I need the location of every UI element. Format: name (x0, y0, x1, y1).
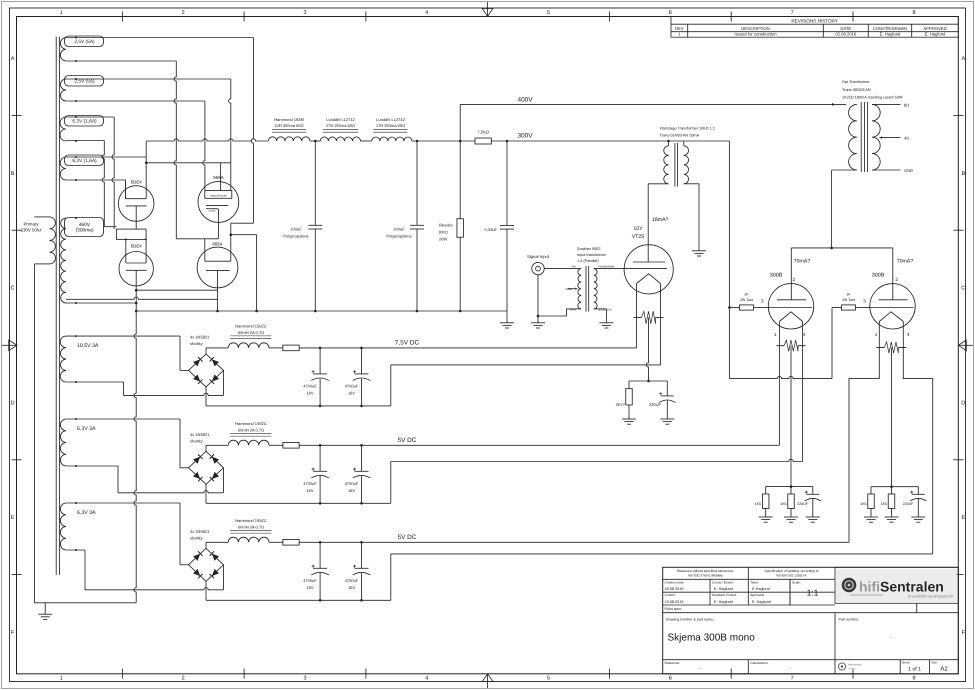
svg-text:C: C (11, 286, 15, 292)
wire input shield return (538, 275, 573, 316)
svg-text:Scale:: Scale: (792, 580, 801, 584)
bridge rectifier 4x 1N5821 PSU1 7.5V (189, 334, 224, 387)
svg-text:200uF: 200uF (393, 226, 405, 231)
svg-text:2K77: 2K77 (616, 402, 626, 407)
winding W4 6.3V 1.6A (60, 155, 103, 181)
svg-text:4: 4 (425, 10, 428, 16)
winding W6 10.5V 3A (60, 335, 99, 383)
resistor 1K 2W Tant grid V7 (832, 293, 870, 310)
ground bus (136, 310, 507, 312)
svg-text:Hammond 159ZC: Hammond 159ZC (235, 421, 267, 426)
svg-text:Standard Control:: Standard Control: (712, 593, 737, 597)
svg-text:A2: A2 (940, 666, 948, 673)
svg-text:D: D (961, 400, 965, 406)
wire V6 cathode wiper (790, 346, 792, 487)
title block (663, 567, 959, 674)
svg-text:1: 1 (60, 10, 63, 16)
svg-text:Part number:: Part number: (839, 618, 860, 622)
svg-text:17H 250ma 65Ω: 17H 250ma 65Ω (376, 123, 405, 128)
svg-text:2: 2 (793, 277, 796, 282)
wire 460V CT return (66, 297, 218, 299)
wire 460V bottom lead (66, 302, 136, 304)
hum pot V6 (776, 345, 784, 347)
svg-text:4700uF: 4700uF (303, 578, 317, 583)
svg-text:GND: GND (904, 168, 913, 173)
svg-text:Trans-305/03 AN: Trans-305/03 AN (842, 88, 871, 92)
svg-text:Issued for construction: Issued for construction (734, 32, 777, 37)
svg-text:16V: 16V (348, 585, 355, 590)
svg-text:(300ma): (300ma) (76, 228, 94, 234)
input transformer T3 Sowther 9062 (566, 247, 615, 312)
wire W4 bottom to V1 heater (66, 179, 126, 181)
wire 866A V4 plate to B+ node (231, 222, 254, 224)
ground (599, 322, 613, 324)
connector J1 signal input (527, 254, 550, 275)
choke L2 Lundahl LL2742 (320, 117, 360, 141)
svg-text:4: 4 (425, 676, 428, 682)
wire secondary to 10Y grid (594, 268, 624, 270)
svg-text:E: E (961, 515, 965, 521)
svg-text:shottky: shottky (190, 535, 203, 540)
wire V7 filament legs (849, 322, 879, 543)
choke L1 Hammond 193M (268, 117, 310, 141)
svg-text:1K25Ω 180mA standing curent 50: 1K25Ω 180mA standing curent 50W (842, 95, 903, 99)
svg-text:MIDB: MIDB (566, 288, 573, 291)
bridge rectifier 4x 1N5821 PSU3 5V b (189, 529, 224, 582)
resistor 2K77 (616, 389, 633, 419)
svg-text:4x 1N5821: 4x 1N5821 (190, 334, 210, 339)
svg-text:Measures without specified tol: Measures without specified tolerances: (677, 569, 734, 573)
wire interstage primary bottom to 10Y plate (648, 183, 668, 185)
svg-text:A: A (11, 56, 15, 62)
wire cathode network bar (629, 380, 667, 382)
svg-text:PRI: PRI (572, 266, 577, 269)
wire input to transformer (544, 268, 577, 270)
svg-text:Specification of welding, acco: Specification of welding, according to (764, 569, 818, 573)
wire junction row (146, 162, 231, 164)
svg-text:70mA?: 70mA? (897, 259, 914, 265)
svg-text:catode: catode (208, 210, 216, 213)
capacitor 220uF 10Y cathode (649, 392, 675, 419)
svg-text:10H 300ma 65Ω: 10H 300ma 65Ω (274, 123, 303, 128)
wire V7 grid drop (831, 308, 833, 379)
wire 300V to grid bus drop (728, 141, 730, 379)
ground (885, 516, 899, 518)
svg-text:16V: 16V (306, 488, 313, 493)
plate bus wire (791, 247, 893, 249)
choke PSU1 7.5V Hammond 159ZC (206, 323, 271, 354)
wire W2 bottom (66, 100, 205, 102)
svg-text:Creation date:: Creation date: (665, 580, 685, 584)
svg-text:APPROVED: APPROVED (923, 26, 946, 31)
wire W3 bottom heater feed (66, 140, 104, 142)
svg-text:300B: 300B (872, 272, 885, 278)
V7 cathode network (860, 485, 926, 517)
svg-text:8: 8 (912, 676, 915, 682)
revisions history table (671, 17, 958, 38)
svg-text:10,5V 3A: 10,5V 3A (77, 343, 99, 349)
svg-text:60mH 2A 0,7Ω: 60mH 2A 0,7Ω (238, 330, 264, 335)
svg-text:2: 2 (895, 277, 898, 282)
wire OPT primary drop (831, 170, 833, 248)
svg-text:hifiSentralen: hifiSentralen (859, 579, 944, 595)
svg-text:6,3V (1,6A): 6,3V (1,6A) (72, 158, 97, 164)
ground (38, 613, 52, 615)
svg-text:E.Haglund: E.Haglund (752, 587, 770, 591)
svg-text:E. Haglund: E. Haglund (714, 587, 733, 591)
wire OPT tap 4 ohm (880, 137, 901, 139)
svg-text:8: 8 (912, 10, 915, 16)
svg-text:1: 1 (774, 332, 777, 337)
svg-text:2: 2 (182, 10, 185, 16)
wire 10Y cathode wiper (646, 318, 648, 382)
wire AC feed bottom PSU1 7.5V (66, 381, 124, 383)
svg-text:NS-EN ISO 13920-A: NS-EN ISO 13920-A (776, 574, 807, 578)
svg-text:Opt Transformer: Opt Transformer (842, 80, 870, 84)
ground (784, 516, 798, 518)
capacitor 200uF polypropylene (386, 141, 424, 311)
svg-text:Paint spec:: Paint spec: (665, 607, 683, 611)
DC return PSU3 5V b (205, 581, 207, 600)
winding W3 6.3V 1.6A (60, 116, 104, 143)
primary winding 230V 50Hz (34, 217, 55, 603)
capacitor 4700uF a PSU1 7.5V (303, 348, 329, 406)
svg-text:Sheet:: Sheet: (902, 661, 911, 665)
svg-text:Hammond 159ZC: Hammond 159ZC (235, 518, 267, 523)
svg-text:2,5V (5A): 2,5V (5A) (74, 79, 95, 85)
winding W7 6.3V 3A (60, 418, 96, 467)
svg-text:866A: 866A (213, 175, 223, 180)
svg-text:2W Tant: 2W Tant (740, 298, 753, 302)
wire 866A plate feeds (176, 238, 218, 240)
svg-text:230V 50hz: 230V 50hz (21, 228, 42, 233)
wire rail segment (310, 140, 320, 142)
svg-text:60mH 2A 0,7Ω: 60mH 2A 0,7Ω (238, 524, 264, 529)
svg-text:1K5: 1K5 (780, 502, 786, 506)
svg-text:Size:: Size: (931, 661, 938, 665)
svg-text:Polypropylene: Polypropylene (386, 233, 412, 238)
svg-text:B: B (961, 171, 965, 177)
grid bias bus (729, 376, 832, 378)
400V rail (460, 103, 846, 105)
wire 10Y filament legs (636, 284, 638, 348)
svg-text:D: D (11, 400, 15, 406)
svg-text:1K5: 1K5 (881, 502, 887, 506)
wire W2 top (66, 78, 231, 80)
svg-text:7,5V DC: 7,5V DC (395, 340, 420, 347)
cathode trunk wire (134, 270, 136, 603)
svg-text:19.08.2016: 19.08.2016 (665, 600, 684, 604)
hum pot V7 (876, 347, 884, 349)
label Primary 230V 50hz (21, 222, 42, 233)
svg-text:shottky: shottky (190, 341, 203, 346)
svg-text:E: E (11, 515, 15, 521)
svg-text:4700uF: 4700uF (345, 383, 359, 388)
svg-text:DESCRIPTION: DESCRIPTION (741, 26, 770, 31)
svg-text:Interstage Transformer 10KΩ 1:: Interstage Transformer 10KΩ 1:1 (660, 127, 715, 131)
svg-text:1K: 1K (744, 293, 749, 297)
svg-text:4700uF: 4700uF (303, 383, 317, 388)
rectifier tube V4 866A (197, 242, 238, 313)
svg-text:PAR/BROWN: PAR/BROWN (599, 266, 615, 269)
wire rail segment (361, 140, 372, 142)
svg-text:6DE4: 6DE4 (131, 180, 143, 185)
svg-text:1 of 1: 1 of 1 (908, 666, 921, 672)
svg-text:1K: 1K (846, 293, 851, 297)
svg-text:1: 1 (60, 676, 63, 682)
svg-text:Heater/Catode: Heater/Catode (210, 195, 227, 198)
svg-text:6,3V 3A: 6,3V 3A (77, 426, 96, 432)
DC return PSU2 5V a (205, 484, 207, 503)
svg-text:VT25: VT25 (632, 234, 645, 240)
resistor filter PSU3 5V b (269, 541, 283, 543)
svg-text:Calculations:: Calculations: (750, 661, 768, 665)
wire 300V rail to interstage (491, 140, 729, 142)
hum pot 10Y (634, 317, 642, 319)
wire rail to resistor (412, 140, 475, 142)
resistor 7.5K (475, 130, 491, 144)
svg-text:866A: 866A (212, 242, 222, 247)
svg-text:et audiofilt samlingspunkt: et audiofilt samlingspunkt (908, 594, 954, 599)
svg-text:punkt no: punkt no (848, 667, 857, 670)
hifiSentralen logo (842, 578, 954, 599)
output transformer T4 (842, 80, 903, 172)
choke L3 Lundahl LL2742 (372, 117, 412, 141)
svg-text:10KΩ: 10KΩ (438, 229, 448, 234)
wire AC feed top PSU2 5V a (66, 418, 180, 420)
svg-text:Trans-014/03 AN 20mA: Trans-014/03 AN 20mA (660, 133, 700, 137)
svg-text:5: 5 (547, 10, 550, 16)
ground (759, 516, 773, 518)
svg-text:16V: 16V (348, 488, 355, 493)
svg-text:E. Haglund: E. Haglund (714, 600, 733, 604)
svg-text:100uF: 100uF (290, 226, 302, 231)
svg-text:Bleeder: Bleeder (439, 222, 453, 227)
svg-text:3: 3 (303, 10, 306, 16)
power tube V7 300B (863, 248, 915, 337)
svg-text:Signal Input: Signal Input (527, 254, 550, 259)
rectifier tube V1 6DE4 (118, 180, 154, 230)
svg-text:1:4 (Parallel): 1:4 (Parallel) (577, 259, 599, 263)
interstage transformer T2 (660, 127, 715, 187)
ground (692, 250, 706, 252)
wire AC feed bottom PSU3 5V b (66, 549, 85, 551)
wire AC feed top PSU1 7.5V (66, 335, 180, 337)
svg-text:5: 5 (547, 676, 550, 682)
heater junction box (116, 229, 146, 239)
power transformer T1 core (56, 37, 59, 576)
svg-text:Drawing number & part name :: Drawing number & part name : (666, 618, 715, 622)
svg-text:4x 1N5821: 4x 1N5821 (190, 432, 210, 437)
capacitor 4700uF b PSU3 5V b (345, 542, 371, 600)
svg-text:0,33uF: 0,33uF (485, 227, 498, 232)
svg-text:REVISIONS HISTORY: REVISIONS HISTORY (791, 18, 838, 23)
capacitor 4700uF a PSU2 5V a (303, 445, 329, 503)
transformer ground bus (34, 602, 136, 604)
ground (864, 516, 878, 518)
svg-text:17H 250ma 65Ω: 17H 250ma 65Ω (326, 123, 355, 128)
svg-text:Hammond 159ZC: Hammond 159ZC (235, 323, 267, 328)
svg-text:NS-ISO 2768-1 Middels: NS-ISO 2768-1 Middels (688, 574, 723, 578)
ground (911, 516, 925, 518)
svg-text:C: C (961, 286, 965, 292)
svg-text:Lundahl LL2742: Lundahl LL2742 (326, 117, 355, 122)
svg-text:DATE: DATE (840, 26, 851, 31)
svg-text:16V: 16V (306, 585, 313, 590)
winding W8 6.3V 3A (60, 502, 96, 551)
wire secondary bottom to ground (594, 308, 607, 310)
wire V6 filament legs (778, 322, 780, 446)
small logo bottom row (838, 663, 862, 670)
svg-text:2W Tant: 2W Tant (842, 298, 855, 302)
svg-text:hifisentralen: hifisentralen (848, 664, 863, 667)
power tube V6 300B (761, 248, 814, 337)
svg-text:shottky: shottky (190, 438, 203, 443)
svg-text:4x 1N5821: 4x 1N5821 (190, 529, 210, 534)
wire B+ node to ground bus (231, 234, 257, 236)
DC rail PSU2 5V a (299, 444, 779, 446)
svg-text:60mH 2A 0,7Ω: 60mH 2A 0,7Ω (238, 427, 264, 432)
svg-text:4Ω: 4Ω (904, 136, 909, 141)
svg-text:1K5: 1K5 (860, 502, 866, 506)
DC return PSU1 7.5V (205, 387, 207, 406)
svg-text:Approved:: Approved: (750, 593, 765, 597)
ground (500, 322, 514, 324)
svg-text:GRN: GRN (570, 309, 576, 312)
svg-text:Input transformer: Input transformer (577, 253, 607, 257)
svg-text:Skjema 300B mono: Skjema 300B mono (668, 633, 756, 644)
svg-text:Hammond 193M: Hammond 193M (274, 117, 304, 122)
winding W5 460V 300ma (61, 217, 104, 304)
capacitor 4700uF b PSU2 5V a (345, 445, 371, 503)
wire AC feed bottom PSU2 5V a (66, 465, 118, 467)
ground (622, 418, 636, 420)
svg-text:70mA?: 70mA? (794, 259, 811, 265)
svg-text:20W: 20W (439, 236, 447, 241)
wire B+ rail lead-in (146, 139, 268, 141)
svg-text:460V: 460V (79, 222, 91, 228)
svg-text:300B: 300B (770, 272, 783, 278)
svg-text:16V: 16V (306, 390, 313, 395)
svg-text:8Ω: 8Ω (904, 102, 909, 107)
svg-text:02.08.2016: 02.08.2016 (835, 32, 857, 37)
rectifier tube V3 866A (198, 163, 239, 239)
svg-text:Polypropylene: Polypropylene (283, 233, 309, 238)
svg-text:7: 7 (791, 10, 794, 16)
svg-text:2,5V (5A): 2,5V (5A) (74, 39, 95, 45)
driver tube V5 10Y VT25 (624, 226, 673, 294)
svg-text:18mA?: 18mA? (652, 217, 669, 223)
svg-text:18.08.2016: 18.08.2016 (665, 587, 684, 591)
wire interstage secondary bottom to ground (684, 183, 699, 185)
svg-text:Control:: Control: (665, 593, 676, 597)
capacitor 4700uF b PSU1 7.5V (345, 348, 371, 406)
svg-text:6,3V 3A: 6,3V 3A (77, 510, 96, 516)
wire W1 bottom (66, 60, 176, 62)
svg-text:1: 1 (875, 332, 878, 337)
svg-text:2: 2 (182, 676, 185, 682)
wire AC feed top PSU3 5V b (66, 502, 180, 504)
svg-text:E. Haglund: E. Haglund (752, 600, 771, 604)
svg-text:B: B (11, 171, 15, 177)
svg-text:5V DC: 5V DC (398, 437, 417, 444)
winding W1 2.5V 5A (60, 36, 103, 62)
svg-text:Primary: Primary (23, 222, 39, 227)
bleeder resistor 10K 20W (438, 141, 464, 311)
wire rectifier cathode link (136, 289, 217, 291)
svg-text:4700uF: 4700uF (345, 578, 359, 583)
svg-text:220UF: 220UF (797, 502, 809, 506)
V6 cathode network (755, 485, 821, 517)
resistor filter PSU1 7.5V (269, 347, 283, 349)
rectifier tube V2 6DE4 (119, 239, 153, 286)
svg-text:400V: 400V (518, 96, 534, 103)
svg-text:Lundahl LL2742: Lundahl LL2742 (376, 117, 405, 122)
ground (806, 516, 820, 518)
choke PSU3 5V b Hammond 159ZC (206, 518, 271, 549)
svg-text:6: 6 (669, 10, 672, 16)
svg-text:1:1: 1:1 (807, 588, 819, 598)
svg-text:3: 3 (303, 676, 306, 682)
capacitor 0.33uF (485, 141, 514, 311)
wire W1 top feed (66, 37, 253, 39)
resistor 1K 2W Tant grid V6 (728, 293, 768, 310)
svg-text:16V: 16V (348, 390, 355, 395)
wire OPT tap 8 ohm (872, 103, 901, 105)
choke PSU2 5V a Hammond 159ZC (206, 421, 271, 452)
capacitor 100uF polypropylene (283, 141, 322, 311)
svg-text:5V DC: 5V DC (398, 534, 417, 541)
svg-text:E. Haglund: E. Haglund (925, 32, 946, 37)
svg-text:Constr./ Drawn:: Constr./ Drawn: (712, 580, 734, 584)
ground (531, 322, 545, 324)
svg-text:300V: 300V (518, 132, 534, 139)
svg-text:CONSTR/DRAWN: CONSTR/DRAWN (873, 26, 908, 31)
svg-text:A: A (961, 56, 965, 62)
svg-text:220UF: 220UF (649, 402, 662, 407)
svg-text:Reference:: Reference: (665, 661, 681, 665)
svg-text:10Y: 10Y (633, 226, 643, 232)
svg-text:3: 3 (761, 298, 764, 303)
svg-text:E. Haglund: E. Haglund (880, 32, 901, 37)
svg-text:Sowther 9062: Sowther 9062 (577, 247, 600, 251)
wire W3 top heater feed (66, 116, 114, 118)
svg-text:6: 6 (669, 676, 672, 682)
svg-text:4700uF: 4700uF (303, 481, 317, 486)
svg-text:REV: REV (675, 26, 684, 31)
svg-text:Tekst:: Tekst: (750, 580, 758, 584)
svg-text:7,5KΩ: 7,5KΩ (477, 130, 489, 135)
DC rail PSU3 5V b (299, 541, 849, 543)
capacitor 4700uF a PSU3 5V b (303, 542, 329, 600)
svg-text:7: 7 (791, 676, 794, 682)
wire OPT tap GND (872, 169, 901, 171)
winding W2 2.5V 5A (61, 76, 104, 103)
svg-text:4: 4 (803, 332, 806, 337)
DC rail PSU1 7.5V (299, 347, 636, 349)
svg-text:1K5: 1K5 (755, 502, 761, 506)
svg-text:4700uF: 4700uF (345, 481, 359, 486)
ground (660, 418, 674, 420)
svg-text:220UF: 220UF (903, 502, 915, 506)
wire W4 top to V1 heater (66, 156, 146, 158)
resistor filter PSU2 5V a (269, 444, 283, 446)
svg-text:6,3V (1,6A): 6,3V (1,6A) (72, 119, 97, 125)
svg-text:3: 3 (863, 298, 866, 303)
svg-text:4: 4 (907, 332, 910, 337)
svg-text:6DE4: 6DE4 (131, 243, 143, 248)
bridge rectifier 4x 1N5821 PSU2 5V a (189, 432, 224, 485)
